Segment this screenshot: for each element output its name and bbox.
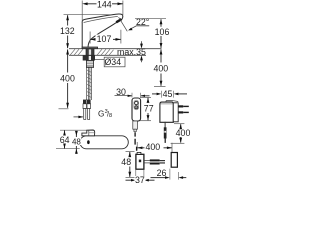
threaded shank below deck (86, 61, 93, 68)
svg-text:22°: 22° (136, 17, 149, 27)
deck bottom line (69, 54, 146, 56)
label 400 psu cable (176, 130, 191, 138)
pipe ends G3/8 (84, 109, 86, 120)
label 107 (96, 35, 113, 44)
flange nut under deck (83, 55, 95, 60)
dim 48 (side pill) (75, 131, 77, 137)
dim 400 right (160, 49, 162, 62)
Ø34 box + leader (104, 57, 125, 67)
label 48 side pill (72, 138, 82, 145)
svg-text:107: 107 (97, 34, 112, 44)
label 106 (154, 27, 170, 36)
svg-text:132: 132 (60, 26, 75, 36)
label 400 bottom (145, 142, 162, 151)
label 400 left (60, 73, 77, 83)
svg-text:400: 400 (153, 64, 168, 74)
max.35 deck arrows (141, 41, 143, 44)
svg-text:400: 400 (145, 142, 160, 152)
label 132 (59, 26, 76, 36)
back edge extension line to 144 dim (81, 1, 83, 23)
deck hatching (70, 49, 114, 55)
svg-text:37: 37 (135, 175, 145, 185)
label 144 (97, 0, 113, 9)
shank through deck (86, 49, 94, 56)
right head extension to 144 dim (122, 1, 124, 16)
svg-text:400: 400 (176, 128, 191, 138)
svg-text:106: 106 (155, 27, 170, 37)
control box cable connector (133, 121, 138, 129)
dim 107 (89, 32, 91, 44)
dim 400 left (67, 49, 69, 72)
dim 45 (152, 93, 157, 95)
side connector barrel and pins (144, 160, 151, 162)
aerator face 22deg (116, 19, 121, 22)
svg-text:G: G (98, 110, 104, 119)
psu top bump (166, 100, 173, 102)
flexible hoses (87, 67, 92, 100)
hose end nuts (83, 100, 87, 104)
svg-text:77: 77 (144, 104, 154, 114)
psu side face (173, 103, 178, 122)
svg-text:400: 400 (60, 73, 75, 83)
power supply front view (160, 102, 173, 122)
dim 106 right: top ext (135, 18, 166, 20)
svg-text:48: 48 (121, 157, 131, 167)
dim 77 (140, 96, 151, 98)
dim 132 (67, 15, 69, 25)
water stream direction line (119, 17, 128, 31)
faucet front view outline (82, 14, 123, 47)
svg-text:144: 144 (97, 0, 112, 9)
dashed cable below control box (135, 132, 137, 151)
dim 400 psu cable (174, 123, 184, 125)
label 48 control box (121, 158, 132, 167)
deck top line (69, 48, 162, 50)
svg-text:Ø34: Ø34 (104, 57, 121, 67)
svg-text:8: 8 (109, 113, 112, 119)
dim 132 top extension (64, 14, 113, 16)
control box front view (132, 98, 141, 121)
22deg leader (129, 26, 149, 30)
faucet side view pill (80, 136, 128, 149)
label 37 (135, 176, 146, 184)
G3/8 leader (74, 116, 83, 118)
svg-text:26: 26 (157, 168, 167, 178)
bottom horizontal 400 dim (136, 142, 138, 151)
label 77 (144, 103, 155, 113)
sensor dot on side view (87, 140, 90, 144)
dim 26 (169, 169, 171, 180)
dim 144 (87, 3, 97, 5)
label 64 (60, 136, 71, 144)
psu prongs (178, 105, 183, 107)
dim 30 (115, 94, 128, 96)
label 400 right (153, 63, 169, 73)
dim 48 (control box side) (126, 151, 135, 153)
psu cable + connector (164, 122, 166, 128)
svg-text:max.35: max.35 (117, 47, 146, 57)
side view top tab (lever) (82, 130, 95, 136)
dim 37 (135, 170, 137, 183)
faucet spout inner top line (84, 16, 118, 22)
svg-text:48: 48 (72, 137, 81, 146)
dim 64 (60, 129, 87, 131)
power supply side view (171, 153, 177, 168)
faucet base on deck (82, 47, 98, 49)
svg-text:45: 45 (163, 89, 173, 99)
control box side view (136, 154, 144, 169)
svg-text:64: 64 (60, 135, 70, 145)
svg-text:30: 30 (116, 87, 126, 97)
